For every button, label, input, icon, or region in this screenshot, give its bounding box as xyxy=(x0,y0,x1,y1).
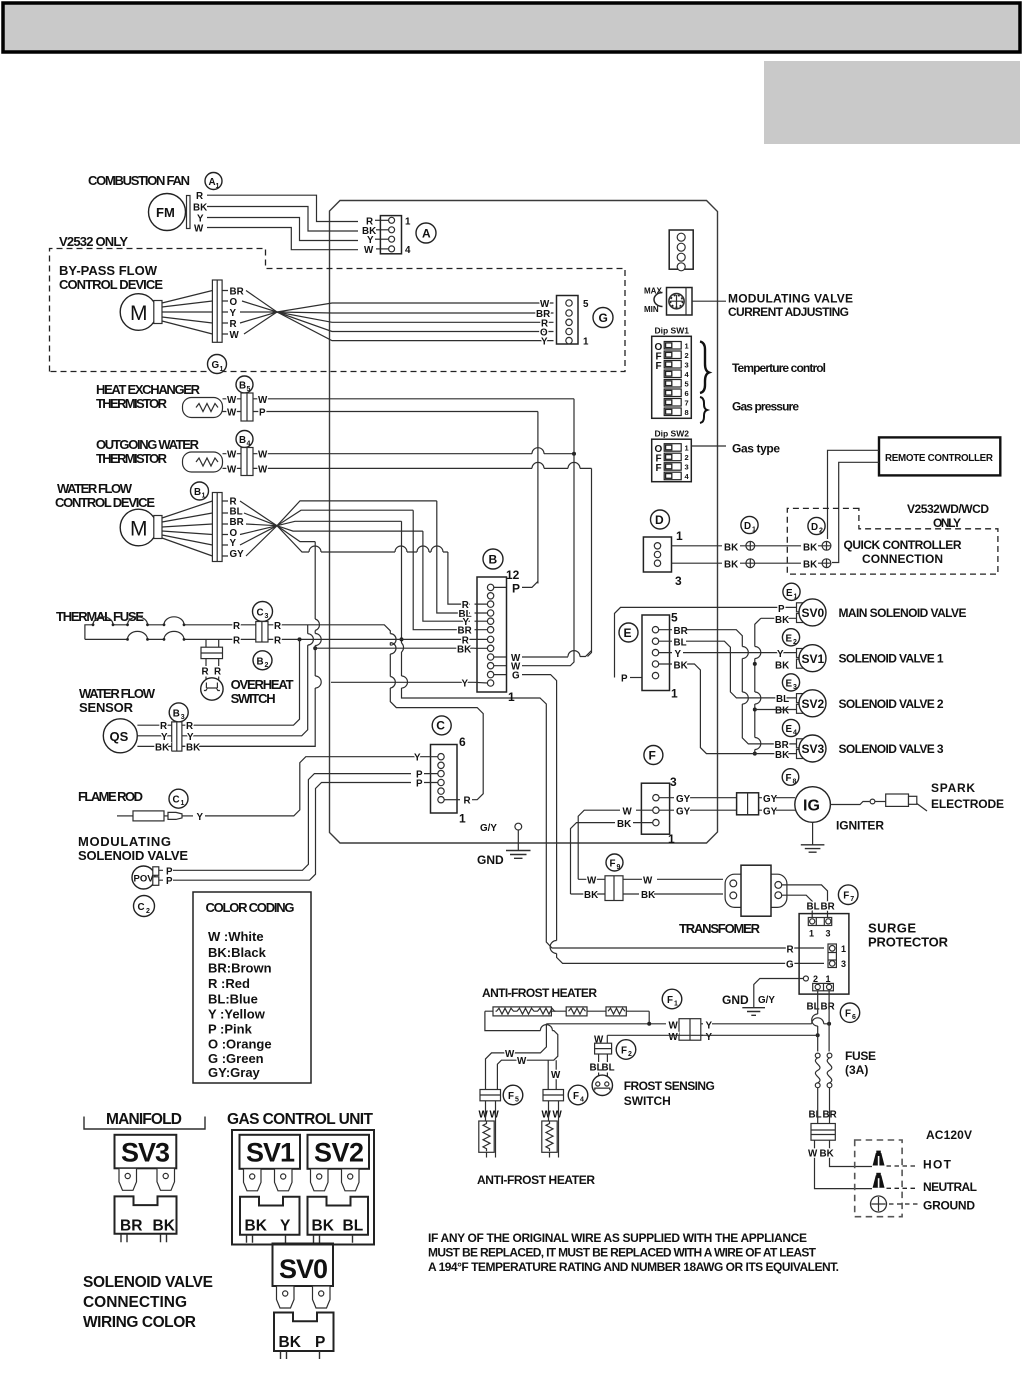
svg-text:W: W xyxy=(227,464,237,475)
svg-text:6: 6 xyxy=(852,1014,856,1021)
svg-text:THERMISTOR: THERMISTOR xyxy=(96,396,168,411)
wire R-row1 (C3 down to C connector R) xyxy=(268,625,483,800)
svg-text:C: C xyxy=(257,608,264,619)
svg-text:Y :Yellow: Y :Yellow xyxy=(208,1007,266,1022)
svg-text:MAX: MAX xyxy=(644,287,662,296)
SV0 connector housing xyxy=(274,1313,334,1352)
solenoid SV2 xyxy=(797,694,804,703)
svg-text:W: W xyxy=(517,1056,527,1067)
svg-text:Y: Y xyxy=(777,649,784,660)
svg-text:Y: Y xyxy=(230,308,237,319)
B pin12 P wire xyxy=(494,581,538,587)
node F6 xyxy=(840,1003,859,1022)
svg-text:SV0: SV0 xyxy=(279,1254,328,1284)
F W BK wires xyxy=(578,810,652,879)
svg-text:W: W xyxy=(227,450,237,461)
svg-text:D: D xyxy=(744,521,751,532)
wire SV0 P row xyxy=(615,607,798,677)
fuse BR xyxy=(827,1053,832,1058)
svg-text:3: 3 xyxy=(685,463,689,472)
svg-text:BL: BL xyxy=(776,694,789,705)
node D1 xyxy=(741,516,758,533)
svg-text:TRANSFOMER: TRANSFOMER xyxy=(679,921,761,936)
svg-text:4: 4 xyxy=(580,1097,584,1104)
svg-text:O :Orange: O :Orange xyxy=(208,1037,272,1052)
svg-text:BK: BK xyxy=(186,742,200,753)
svg-text:Y: Y xyxy=(414,753,421,764)
svg-text:P: P xyxy=(512,581,520,595)
overheat switch xyxy=(201,678,223,700)
wire fan BK xyxy=(207,207,358,232)
svg-text:SOLENOID VALVE 3: SOLENOID VALVE 3 xyxy=(839,742,944,756)
svg-text:4: 4 xyxy=(793,730,797,737)
heater resistors row xyxy=(485,1010,649,1012)
surge gnd circle xyxy=(803,976,808,981)
svg-text:BK: BK xyxy=(193,203,207,214)
SV1 spades xyxy=(244,1169,262,1191)
svg-text:1: 1 xyxy=(459,812,466,826)
svg-text:SWITCH: SWITCH xyxy=(231,691,276,706)
bypass motor M xyxy=(120,294,157,331)
svg-text:HEAT EXCHANGER: HEAT EXCHANGER xyxy=(96,382,201,397)
svg-text:BK: BK xyxy=(803,560,817,571)
svg-text:W: W xyxy=(643,875,653,886)
svg-text:W :White: W :White xyxy=(208,929,264,944)
wire SV0 BK row to bus xyxy=(755,618,797,753)
svg-text:R: R xyxy=(160,721,167,732)
svg-text:12: 12 xyxy=(506,568,520,582)
svg-text:3: 3 xyxy=(826,929,831,939)
wire QS BK xyxy=(182,745,315,747)
svg-text:QUICK CONTROLLER: QUICK CONTROLLER xyxy=(844,538,962,552)
svg-text:MODULATING VALVE: MODULATING VALVE xyxy=(728,292,853,306)
svg-text:P: P xyxy=(259,408,266,419)
svg-text:BR: BR xyxy=(120,1218,142,1235)
wire B5 W xyxy=(253,398,574,400)
trunk x401.5 (B1 to R-row junction, down to surge R) xyxy=(402,521,825,948)
node F8 xyxy=(782,769,799,786)
wire POV P1 xyxy=(173,774,411,871)
svg-text:2: 2 xyxy=(628,1051,632,1058)
svg-text:1: 1 xyxy=(668,832,675,846)
solenoid SV3 xyxy=(797,739,804,748)
svg-text:Y: Y xyxy=(706,1032,713,1043)
svg-text:BK: BK xyxy=(674,661,688,672)
svg-text:M: M xyxy=(130,302,148,325)
svg-text:V2532WD/WCD: V2532WD/WCD xyxy=(907,502,989,516)
igniter ground xyxy=(812,822,814,844)
svg-text:2: 2 xyxy=(146,908,150,915)
connector C xyxy=(432,716,451,735)
svg-text:E: E xyxy=(786,633,793,644)
connector 4pin top right xyxy=(669,230,693,269)
svg-text:BK:Black: BK:Black xyxy=(208,945,267,960)
svg-text:BK: BK xyxy=(153,1218,176,1235)
connector F1 xyxy=(679,1019,701,1040)
svg-text:5: 5 xyxy=(685,380,689,389)
svg-text:5: 5 xyxy=(247,386,251,393)
svg-text:1: 1 xyxy=(671,687,678,701)
svg-text:R: R xyxy=(196,191,203,202)
wire D row3 xyxy=(672,562,823,564)
svg-text:G: G xyxy=(786,959,794,970)
wire F2 drop xyxy=(606,1035,608,1043)
SV3 connector housing xyxy=(115,1196,177,1233)
svg-text:R: R xyxy=(230,319,237,330)
svg-text:BL: BL xyxy=(230,506,243,517)
svg-text:B: B xyxy=(239,381,246,392)
SV0 body xyxy=(273,1244,334,1287)
modulating solenoid POV xyxy=(132,866,155,889)
svg-text:G: G xyxy=(512,671,520,682)
svg-text:W: W xyxy=(542,1110,552,1121)
svg-text:GY: GY xyxy=(230,549,245,560)
svg-text:GY: GY xyxy=(763,794,778,805)
flame rod xyxy=(117,815,133,817)
svg-text:W: W xyxy=(553,1110,563,1121)
svg-text:G: G xyxy=(212,360,220,371)
E pin wires xyxy=(659,630,797,744)
svg-text:F: F xyxy=(843,891,849,902)
svg-text:IG: IG xyxy=(803,798,820,815)
svg-text:SPARK: SPARK xyxy=(931,781,975,795)
svg-text:BK: BK xyxy=(279,1334,302,1351)
node G xyxy=(593,308,613,328)
svg-text:2: 2 xyxy=(793,639,797,646)
svg-text:7: 7 xyxy=(685,399,689,408)
svg-text:SV2: SV2 xyxy=(802,697,825,711)
thermistor B4 xyxy=(183,452,223,472)
svg-text:B: B xyxy=(194,487,201,498)
SV1 connector housing xyxy=(240,1197,300,1235)
surge top connector xyxy=(808,918,831,926)
connector F4 xyxy=(543,1090,564,1101)
svg-text:IF ANY OF THE ORIGINAL WIRE AS: IF ANY OF THE ORIGINAL WIRE AS SUPPLIED … xyxy=(428,1231,807,1245)
svg-text:8: 8 xyxy=(685,408,689,417)
svg-text:7: 7 xyxy=(850,896,854,903)
wire remote to D2 pin3 xyxy=(832,462,879,562)
SV3 body xyxy=(115,1135,177,1169)
svg-text:1: 1 xyxy=(826,974,831,984)
BL BR wires to fuse xyxy=(818,991,829,1052)
modulating valve adjuster pot xyxy=(667,288,693,316)
node D2 xyxy=(808,517,825,534)
svg-text:SV3: SV3 xyxy=(802,742,825,756)
svg-text:ELECTRODE: ELECTRODE xyxy=(931,797,1004,811)
svg-text:FM: FM xyxy=(156,205,175,220)
surge R G pins xyxy=(828,944,836,968)
svg-text:E: E xyxy=(786,678,793,689)
SV1 body xyxy=(240,1135,301,1169)
svg-text:W: W xyxy=(227,395,237,406)
wire IG to spark electrode xyxy=(830,802,869,805)
svg-text:E: E xyxy=(786,724,793,735)
C pin R wire xyxy=(444,799,460,801)
node A xyxy=(416,223,436,243)
svg-text:W: W xyxy=(258,464,268,475)
svg-text:BK: BK xyxy=(803,542,817,553)
svg-text:3: 3 xyxy=(675,574,682,588)
svg-text:BL: BL xyxy=(809,1110,822,1121)
svg-text:1: 1 xyxy=(674,1001,678,1008)
F9 to transformer wires xyxy=(623,879,723,894)
wire BK-row (to B pin5) xyxy=(315,647,474,649)
svg-text:Gas pressure: Gas pressure xyxy=(732,400,799,414)
svg-text:1: 1 xyxy=(676,529,683,543)
svg-text:F: F xyxy=(656,463,662,474)
NEUTRAL blade xyxy=(873,1175,885,1188)
connector B4 xyxy=(236,431,253,448)
svg-text:R: R xyxy=(214,667,221,678)
svg-text:SWITCH: SWITCH xyxy=(624,1094,671,1108)
svg-text:F: F xyxy=(845,1009,851,1020)
SV2 spades xyxy=(311,1169,329,1191)
svg-text:GY:Gray: GY:Gray xyxy=(208,1065,261,1080)
svg-text:BK: BK xyxy=(245,1218,268,1235)
connector F5 xyxy=(480,1090,501,1101)
svg-text:W: W xyxy=(479,1110,489,1121)
connector G xyxy=(557,296,579,345)
svg-text:P: P xyxy=(416,779,423,790)
svg-text:P: P xyxy=(621,674,628,685)
svg-text:SENSOR: SENSOR xyxy=(79,700,134,715)
svg-text:5: 5 xyxy=(515,1097,519,1104)
svg-text:FLAME ROD: FLAME ROD xyxy=(78,789,143,804)
controller board outline xyxy=(330,201,718,844)
svg-text:BR: BR xyxy=(821,1002,835,1013)
node D xyxy=(651,510,670,529)
svg-text:W: W xyxy=(490,1110,500,1121)
svg-text:1: 1 xyxy=(216,183,220,190)
wire fan Y xyxy=(207,218,358,241)
svg-text:CURRENT ADJUSTING: CURRENT ADJUSTING xyxy=(728,305,849,319)
node A1 xyxy=(205,173,222,190)
svg-text:BL: BL xyxy=(807,902,820,913)
svg-text:F: F xyxy=(573,1091,579,1102)
svg-text:P: P xyxy=(166,876,173,887)
svg-text:ANTI-FROST HEATER: ANTI-FROST HEATER xyxy=(482,986,597,1000)
trunk W vertical x574 xyxy=(570,399,574,666)
wire F1 Y row2 to BL xyxy=(607,1034,817,1036)
svg-text:3: 3 xyxy=(793,684,797,691)
igniter IG xyxy=(795,787,831,823)
svg-text:5: 5 xyxy=(583,299,589,310)
igniter connector xyxy=(737,793,759,815)
wire remote to D2 pin1 xyxy=(828,450,880,539)
svg-text:BR: BR xyxy=(230,517,244,528)
svg-text:PROTECTOR: PROTECTOR xyxy=(868,935,949,950)
svg-text:BK: BK xyxy=(155,742,169,753)
frost sensing switch xyxy=(592,1075,612,1095)
solenoid SV1 xyxy=(797,649,804,658)
svg-text:2: 2 xyxy=(685,351,689,360)
svg-text:GAS CONTROL UNIT: GAS CONTROL UNIT xyxy=(227,1111,374,1128)
connector E xyxy=(619,623,638,642)
wire adjuster to label xyxy=(692,300,726,302)
wire POV P2 xyxy=(173,783,411,881)
svg-text:BK: BK xyxy=(775,615,789,626)
svg-text:2: 2 xyxy=(813,974,818,984)
svg-text:Y: Y xyxy=(187,732,194,743)
node F9 xyxy=(606,854,623,871)
svg-text:GY: GY xyxy=(763,807,778,818)
connector F9 xyxy=(605,876,623,901)
svg-text:V2532 ONLY: V2532 ONLY xyxy=(59,234,128,249)
svg-text:3: 3 xyxy=(181,714,185,721)
svg-text:M: M xyxy=(130,518,148,541)
svg-text:1: 1 xyxy=(752,527,756,534)
svg-text:BK: BK xyxy=(641,890,655,901)
node E1 xyxy=(783,583,800,600)
node B1 xyxy=(191,482,209,500)
svg-text:CONNECTION: CONNECTION xyxy=(862,552,943,566)
bypass fan-out wires to G xyxy=(222,291,228,335)
svg-text:1: 1 xyxy=(809,929,814,939)
svg-text:SV0: SV0 xyxy=(802,606,825,620)
svg-text:NEUTRAL: NEUTRAL xyxy=(923,1180,977,1194)
svg-text:POV: POV xyxy=(134,874,155,885)
svg-text:GND: GND xyxy=(477,853,504,867)
svg-text:R: R xyxy=(274,621,281,632)
svg-text:R :Red: R :Red xyxy=(208,976,250,991)
svg-text:BK: BK xyxy=(775,750,789,761)
svg-text:MANIFOLD: MANIFOLD xyxy=(106,1111,182,1128)
title bar xyxy=(3,3,1020,52)
svg-text:F: F xyxy=(786,773,792,784)
svg-text:6: 6 xyxy=(459,735,466,749)
svg-text:1: 1 xyxy=(794,593,798,600)
svg-text:SURGE: SURGE xyxy=(868,921,916,936)
B1 fan-out rays xyxy=(240,501,437,526)
svg-text:P: P xyxy=(315,1334,325,1351)
svg-text:ONLY: ONLY xyxy=(933,516,961,530)
svg-text:AC120V: AC120V xyxy=(926,1128,972,1142)
svg-text:4: 4 xyxy=(405,245,411,256)
SV3 spade terminals xyxy=(119,1168,137,1190)
dashed box quick controller xyxy=(787,508,998,574)
svg-text:CONTROL DEVICE: CONTROL DEVICE xyxy=(55,495,155,510)
svg-text:6: 6 xyxy=(685,389,689,398)
svg-text:BK: BK xyxy=(724,542,738,553)
svg-text:E: E xyxy=(786,588,793,599)
GROUND pin xyxy=(871,1196,887,1212)
svg-text:BR:Brown: BR:Brown xyxy=(208,961,272,976)
svg-text:C: C xyxy=(173,795,180,806)
svg-text:3: 3 xyxy=(670,775,677,789)
svg-text:F: F xyxy=(667,995,673,1006)
svg-text:W: W xyxy=(258,395,268,406)
svg-text:BR: BR xyxy=(230,287,244,298)
svg-text:C: C xyxy=(436,718,445,732)
svg-text:5: 5 xyxy=(671,611,678,625)
svg-text:3: 3 xyxy=(685,361,689,370)
wires to plug xyxy=(815,1140,873,1188)
HOT blade xyxy=(873,1153,885,1166)
transformer to surge wires xyxy=(782,885,828,920)
node B2 xyxy=(253,651,272,670)
wire flame rod Y to connector C xyxy=(205,757,424,816)
svg-text:R: R xyxy=(202,667,209,678)
svg-text:1: 1 xyxy=(685,342,689,351)
node G1 xyxy=(208,355,227,374)
svg-text:F: F xyxy=(621,1046,627,1057)
svg-text:CONTROL DEVICE: CONTROL DEVICE xyxy=(59,277,163,292)
wire B pin1 Y row xyxy=(331,681,475,683)
spark electrode plug xyxy=(886,794,909,806)
svg-text:F: F xyxy=(656,361,662,372)
connector A xyxy=(380,216,401,254)
wires motor to bar xyxy=(162,291,212,335)
branch to F5 left xyxy=(486,1024,547,1090)
SV2 connector housing xyxy=(308,1197,369,1235)
svg-text:G/Y: G/Y xyxy=(480,823,497,834)
wire B5 P xyxy=(253,411,538,413)
trunk W vertical x591 xyxy=(588,468,592,656)
svg-text:Gas type: Gas type xyxy=(732,442,780,456)
svg-text:D: D xyxy=(655,513,664,527)
svg-text:IGNITER: IGNITER xyxy=(836,819,884,833)
svg-text:P :Pink: P :Pink xyxy=(208,1022,253,1037)
svg-text:QS: QS xyxy=(110,729,129,744)
svg-text:Y: Y xyxy=(161,732,168,743)
svg-text:BL: BL xyxy=(343,1218,364,1235)
svg-text:R: R xyxy=(787,944,794,955)
connector C3 xyxy=(253,602,273,622)
wire B4 W row1 xyxy=(253,453,574,455)
svg-text:P: P xyxy=(778,604,785,615)
svg-text:OUTGOING WATER: OUTGOING WATER xyxy=(96,437,200,452)
svg-text:W: W xyxy=(808,1149,818,1160)
svg-text:GY: GY xyxy=(676,794,691,805)
svg-text:Y: Y xyxy=(230,538,237,549)
svg-text:BR: BR xyxy=(821,902,835,913)
svg-text:SV1: SV1 xyxy=(246,1138,295,1168)
node C2 xyxy=(134,896,155,917)
svg-text:1: 1 xyxy=(508,690,515,704)
connector B xyxy=(483,549,503,569)
svg-text:SV2: SV2 xyxy=(314,1138,364,1168)
svg-text:G: G xyxy=(599,311,608,325)
svg-text:Temperture control: Temperture control xyxy=(732,361,826,375)
svg-text:R: R xyxy=(233,635,240,646)
svg-text:BK: BK xyxy=(617,819,631,830)
svg-text:W: W xyxy=(551,1070,561,1081)
thermal fuse element xyxy=(85,625,128,640)
svg-text:1: 1 xyxy=(405,217,411,228)
svg-text:1: 1 xyxy=(181,800,185,807)
svg-text:SOLENOID VALVE: SOLENOID VALVE xyxy=(83,1274,213,1291)
svg-text:F: F xyxy=(508,1091,514,1102)
svg-text:ANTI-FROST HEATER: ANTI-FROST HEATER xyxy=(477,1173,595,1187)
connector B3 xyxy=(169,703,188,722)
SV2 body xyxy=(308,1135,370,1169)
svg-text:BK: BK xyxy=(584,890,598,901)
svg-text:GY: GY xyxy=(676,807,691,818)
svg-text:W: W xyxy=(194,224,204,235)
svg-text:W: W xyxy=(669,1032,679,1043)
svg-text:R: R xyxy=(274,635,281,646)
branch to F4 xyxy=(548,1060,556,1089)
svg-text:W: W xyxy=(258,450,268,461)
svg-text:MODULATING: MODULATING xyxy=(78,834,171,849)
svg-text:BR: BR xyxy=(674,626,688,637)
wire F1 Y row1 to BR xyxy=(712,1023,829,1025)
gas control unit outer box xyxy=(232,1130,374,1245)
node E2 xyxy=(782,629,799,646)
svg-text:R: R xyxy=(464,796,471,807)
water flow sensor QS xyxy=(103,719,137,753)
svg-text:BY-PASS FLOW: BY-PASS FLOW xyxy=(59,263,158,278)
